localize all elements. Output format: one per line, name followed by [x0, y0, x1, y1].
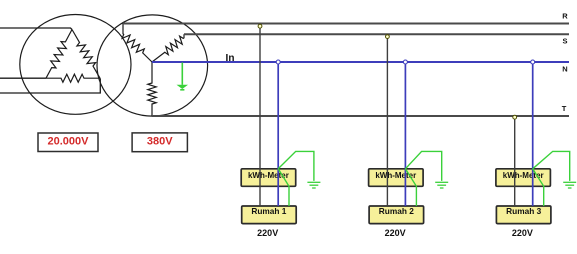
delta winding right side — [72, 30, 100, 79]
ground symbol meter 3 — [563, 182, 576, 188]
wire HV phase 3 — [0, 78, 100, 93]
wire meter 3 to Rumah 3 — [533, 169, 544, 206]
wire T line — [152, 115, 569, 117]
svg-text:S: S — [562, 37, 567, 46]
svg-text:T: T — [562, 104, 567, 113]
wire meter 1 earth lead — [278, 151, 314, 181]
junction on R line — [258, 24, 262, 28]
kWh-Meter box 1 — [241, 169, 296, 187]
wire meter 2 to Rumah 2 — [405, 169, 416, 206]
svg-text:20.000V: 20.000V — [48, 135, 90, 147]
transformer T1 secondary circle — [97, 15, 208, 116]
wire neutral drop to meter 1 — [277, 62, 279, 206]
delta winding bottom side — [46, 74, 100, 82]
wire phase R drop to meter 1 — [259, 24, 261, 207]
wye winding leg R — [122, 24, 152, 63]
transformer T1 primary circle — [20, 15, 131, 115]
earth electrode at neutral — [177, 63, 189, 90]
label box 20.000V — [38, 133, 98, 152]
wire meter 1 to Rumah 1 — [278, 169, 289, 206]
junction on N line meter 1 — [276, 60, 280, 64]
svg-text:380V: 380V — [147, 135, 173, 147]
ground symbol meter 1 — [307, 182, 320, 188]
svg-text:220V: 220V — [385, 228, 406, 238]
svg-text:220V: 220V — [512, 228, 533, 238]
wire neutral drop to meter 2 — [404, 62, 406, 206]
junction on T line — [513, 115, 517, 119]
svg-text:Rumah 2: Rumah 2 — [379, 206, 414, 216]
wire N line — [152, 61, 569, 63]
junction on S line — [386, 35, 390, 39]
svg-text:In: In — [226, 53, 235, 64]
delta winding left side — [46, 30, 72, 79]
kWh-Meter box 2 — [369, 169, 424, 187]
wire phase T drop to meter 3 — [514, 116, 516, 206]
wye winding leg S — [152, 34, 184, 62]
svg-text:220V: 220V — [257, 228, 278, 238]
svg-text:Rumah 1: Rumah 1 — [251, 206, 286, 216]
Rumah 3 box — [496, 206, 551, 224]
kWh-Meter box 3 — [496, 169, 551, 187]
wire meter 3 earth lead — [533, 151, 570, 181]
wire R line — [123, 23, 569, 25]
wye winding leg T — [148, 62, 156, 116]
wire neutral drop to meter 3 — [532, 62, 534, 206]
label box 380V — [132, 133, 187, 152]
wire phase S drop to meter 2 — [386, 34, 388, 206]
wire S line — [184, 33, 569, 35]
svg-text:N: N — [562, 65, 567, 74]
wire meter 2 earth lead — [405, 151, 441, 181]
Rumah 2 box — [369, 206, 424, 224]
wire HV phase 2 — [0, 77, 46, 79]
wire HV phase 1 — [0, 28, 72, 30]
ground symbol meter 2 — [435, 182, 448, 188]
svg-text:Rumah 3: Rumah 3 — [506, 206, 541, 216]
svg-text:R: R — [562, 11, 568, 20]
junction on N line meter 2 — [403, 60, 407, 64]
junction on N line meter 3 — [531, 60, 535, 64]
Rumah 1 box — [242, 206, 297, 224]
